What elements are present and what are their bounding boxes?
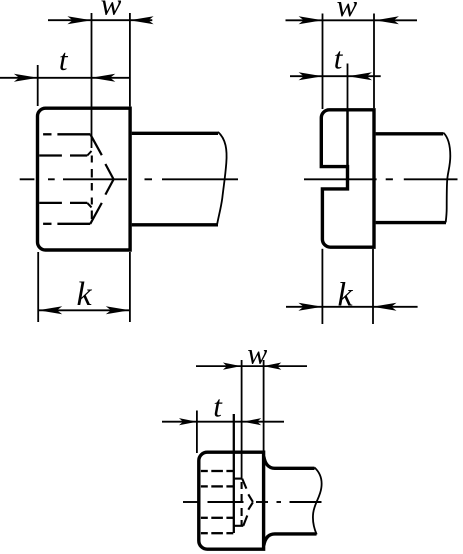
svg-text:k: k [337,276,353,313]
fig3 vertical B solid part (w extension) [241,360,243,479]
fig1 k extension line left [37,252,39,322]
svg-text:t: t [334,41,344,76]
fig3 vertical B hidden dashes [241,482,243,526]
fig3 dimension line t [162,421,284,423]
svg-text:w: w [336,0,357,23]
fig3 jog upper [234,478,242,480]
fig2 shank bottom edge [376,221,446,224]
fig1 socket outer hidden line lower [43,223,90,225]
fig3 shank bottom edge with fillet [264,534,317,546]
fig2 extension line slot bottom (t) [347,64,349,111]
fig3 jog lower [234,525,244,527]
fig2 k arrow left [298,303,322,311]
fig1 k arrow left (inside pointing out) [38,306,62,314]
fig1 socket bottom hidden vertical [91,156,93,220]
fig3 cone lower diagonal [243,502,253,526]
fig3 dimension line w [196,365,307,367]
fig1 socket inner hidden line upper [39,154,87,156]
fig2 shank top edge [376,132,444,135]
fig1 dimension line w [48,19,152,21]
fig1 t arrow left [14,74,38,82]
fig1 dimension line t [0,77,130,79]
fig1 head outline [38,108,131,250]
fig3 extension line left face (t) [196,411,198,454]
fig2 shank break line [443,133,450,223]
fig3 socket bottom vertical A (t depth) [233,414,235,533]
fig1 k extension line right [129,252,131,322]
fig3 socket inner hidden line lower [201,517,233,519]
fig2 t arrow left [299,72,323,80]
fig1 extension line right face (w) [129,13,131,106]
fig2 head outline with slot [321,110,374,247]
fig2 k arrow right [373,303,397,311]
fig2 k extension line right [372,249,374,324]
svg-text:w: w [247,337,267,370]
fig1 shank bottom edge [132,223,218,226]
fig2 dimension line t [290,75,381,77]
fig2 extension line right face (w) [373,14,375,109]
fig3 cone upper diagonal [242,479,253,502]
svg-text:t: t [59,42,69,77]
fig1 socket cone upper diagonal [90,134,113,179]
fig2 centerline [304,178,458,180]
fig3 extension line right face (w) [263,360,265,451]
fig3 socket inner hidden line upper [201,485,233,487]
fig1 shank top edge [132,132,218,135]
fig2 t arrow right [348,72,372,80]
fig1 t arrow right [91,74,115,82]
fig2 k extension line left [321,249,323,324]
fig1 extension line socket bottom (w,t) [91,13,93,148]
fig1 socket outer hidden line upper [43,133,90,135]
fig1 tick at inner upper line end [87,151,91,156]
fig1 k arrow right (inside pointing out) [106,306,130,314]
fig3 socket outer hidden line upper [201,470,233,472]
fig2 w arrow left [299,16,323,24]
fig3 t arrow left [179,418,197,425]
fig1 dimension line k [38,309,130,311]
fig1 w arrow left [67,16,91,24]
fig3 t arrow right [243,418,261,425]
fig3 w arrow right [263,363,281,370]
fig3 head outline [199,452,264,549]
fig2 dimension line w [286,19,418,21]
fig2 w arrow right [375,16,399,24]
fig1 w arrow right [130,16,154,24]
fig3 shank top edge with fillet [264,457,315,469]
fig1 tick at inner lower line end [87,203,91,208]
fig1 extension line left face (t) [37,65,39,106]
fig1 centerline [20,178,238,180]
fig3 socket outer hidden line lower [201,532,233,534]
fig3 w arrow left [223,363,241,370]
fig2 dimension line k [286,306,418,308]
svg-text:k: k [76,276,92,313]
fig1 shank break line [217,132,227,226]
fig3 centerline [183,501,322,503]
fig2 slot bottom line inside head [346,110,349,167]
svg-text:t: t [213,389,223,424]
fig1 socket inner hidden line lower [39,202,87,204]
fig2 extension line left face (w,t) [322,14,324,110]
fig1 socket cone lower diagonal [90,180,113,224]
fig3 shank break line [313,468,322,535]
svg-text:w: w [101,0,122,22]
